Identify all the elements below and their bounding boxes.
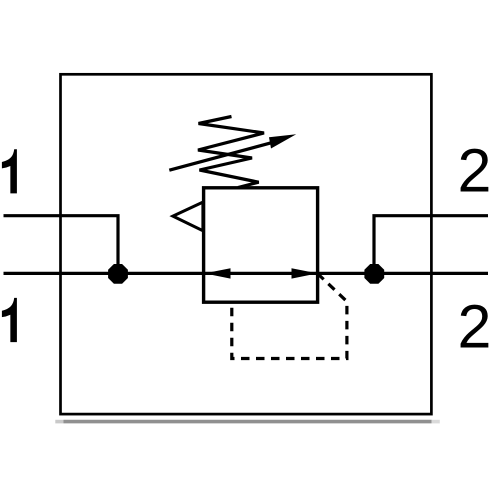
pilot triangle [173,202,203,231]
svg-text:2: 2 [458,137,490,205]
enclosure shadow [55,420,440,424]
svg-text:2: 2 [458,293,490,361]
pilot dashed line [232,274,347,359]
valve arrow left [205,268,231,278]
valve arrow right [292,268,318,278]
label 1 top [2,149,17,193]
enclosure rectangle [61,74,432,414]
main flow line [4,272,489,275]
port 2 upper line [374,216,488,274]
port 1 upper line [4,216,119,274]
spring [198,117,264,188]
junction dot left [108,264,128,284]
label 1 bottom [2,298,17,342]
junction dot right [364,264,384,284]
adjustment arrow shaft [169,142,273,170]
adjustment arrow head [269,134,296,148]
valve body box [204,188,318,302]
